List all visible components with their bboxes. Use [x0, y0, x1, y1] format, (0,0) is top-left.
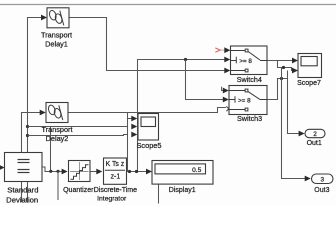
switch3 block [229, 86, 267, 115]
node branch to Switch3 in2 [184, 58, 187, 61]
svg-text:>= 8: >= 8 [239, 58, 252, 65]
standard deviation block [5, 153, 43, 182]
svg-text:Standard: Standard [7, 185, 38, 194]
wire: up to Scope7 in2 line [287, 71, 289, 79]
wire: Quantizer out to Discrete-Time Integrator [90, 171, 97, 173]
wire: branch down off-screen [57, 172, 59, 201]
svg-text:Switch3: Switch3 [237, 114, 262, 123]
svg-text:Out3: Out3 [314, 187, 329, 194]
wire: Discrete-Time Integrator out to Display1 [127, 171, 147, 173]
svg-text:2: 2 [313, 131, 317, 138]
arrow into Transport Delay1 [41, 15, 47, 21]
svg-text:z-1: z-1 [111, 174, 121, 181]
wire: Scope5 in3 feed [28, 135, 128, 136]
svg-text:Transport: Transport [42, 125, 73, 134]
arrow into Switch3 in2 [223, 97, 229, 103]
quantizer block [69, 161, 91, 182]
svg-text:Display1: Display1 [169, 187, 196, 194]
wire: jog to Scope7 in2 [278, 61, 293, 71]
transport delay2 block [46, 103, 68, 123]
out3 port [312, 174, 334, 184]
node junction on Switch3 out [280, 77, 283, 80]
svg-text:Delay2: Delay2 [46, 134, 69, 143]
unconnected line end X at Switch3 in3 [226, 106, 231, 111]
wire: Transport Delay2 out toward Switch3 in3 [68, 108, 226, 113]
arrow into Scope7 in2 [292, 68, 298, 74]
wire: down to Out3 [282, 68, 305, 179]
arrow into Switch3 in1 [223, 88, 229, 94]
node junction on Scope7 in2 feed [282, 66, 285, 69]
red unconnected source marker at Switch4 in1 [215, 48, 220, 52]
svg-text:Integrator: Integrator [97, 195, 127, 202]
svg-text:>= 8: >= 8 [238, 98, 251, 105]
svg-text:0.5: 0.5 [192, 167, 201, 174]
arrow into Scope5 in2 [131, 124, 137, 130]
wire: down to Out1 [288, 79, 299, 134]
arrow into Out1 [299, 131, 305, 137]
arrow into Quantizer [62, 169, 68, 175]
svg-text:Scope7: Scope7 [297, 80, 321, 87]
wire: feedback up to Switch4 in2 [138, 60, 226, 172]
svg-text:Transport: Transport [41, 31, 72, 40]
wire: vertical below Display1 [158, 175, 160, 204]
arrow into Discrete-Time Integrator [96, 169, 102, 175]
wire: Switch4 out to Scope7 in1 [267, 60, 293, 62]
svg-text:Discrete-Time: Discrete-Time [94, 187, 137, 194]
arrow into Scope5 in3 [131, 132, 137, 138]
node junction on Quantizer feed [49, 170, 52, 173]
svg-text:Scope5: Scope5 [136, 141, 161, 150]
wire: branch down behind Transport Delay2 label [50, 127, 52, 172]
svg-text:Switch4: Switch4 [237, 75, 262, 84]
out1 port [305, 129, 325, 138]
node branch to Scope5 in2 [26, 125, 29, 128]
wire: scope5 jog bus vertical [127, 113, 129, 172]
svg-text:K Ts z: K Ts z [106, 161, 125, 168]
arrow into Out3 [305, 176, 311, 182]
scope5 block [138, 114, 159, 141]
node branch below Quantizer input [56, 170, 59, 173]
transport delay1 block [47, 8, 69, 28]
wire: input net to Transport Delay1 [28, 18, 42, 203]
node junction on DTI out 2 [135, 170, 138, 173]
wire: Standard Deviation out to Quantizer [42, 167, 62, 172]
switch4 block [231, 46, 268, 75]
arrow into Transport Delay2 [40, 110, 46, 116]
scope7 block [298, 54, 322, 78]
arrow into Switch4 in1 [224, 47, 230, 53]
svg-text:Out1: Out1 [307, 140, 322, 147]
svg-text:Delay1: Delay1 [45, 40, 68, 49]
wire: Switch3 out up and over [267, 79, 288, 100]
arrow into Standard Deviation [0, 165, 5, 171]
svg-text:Quantizer: Quantizer [63, 187, 94, 194]
display1 block [152, 161, 213, 185]
arrow into Switch4 in2 [224, 57, 230, 63]
arrow into Display1 [146, 169, 152, 175]
wire: Transport Delay1 out to Switch4 in3 [69, 18, 225, 71]
wire: Scope5 in1 stub [128, 118, 132, 120]
wire: input net to Transport Delay2 [22, 113, 41, 203]
wire: stub into Switch3 in1 [222, 87, 224, 91]
top frame line [0, 4, 336, 6]
wire: Scope5 in2 feed [28, 126, 128, 128]
wire: branch down to Switch3 in2 [186, 60, 225, 100]
arrow into Switch4 in3 [224, 68, 230, 74]
svg-text:3: 3 [320, 177, 324, 184]
node junction on DTI out 1 [128, 170, 131, 173]
svg-text:Deviation: Deviation [6, 195, 38, 204]
discrete-time integrator block [104, 158, 127, 184]
arrow into Scope7 in1 [292, 58, 298, 64]
arrow into Scope5 in1 [131, 116, 137, 122]
node branch to Scope5 in3 [26, 134, 29, 137]
